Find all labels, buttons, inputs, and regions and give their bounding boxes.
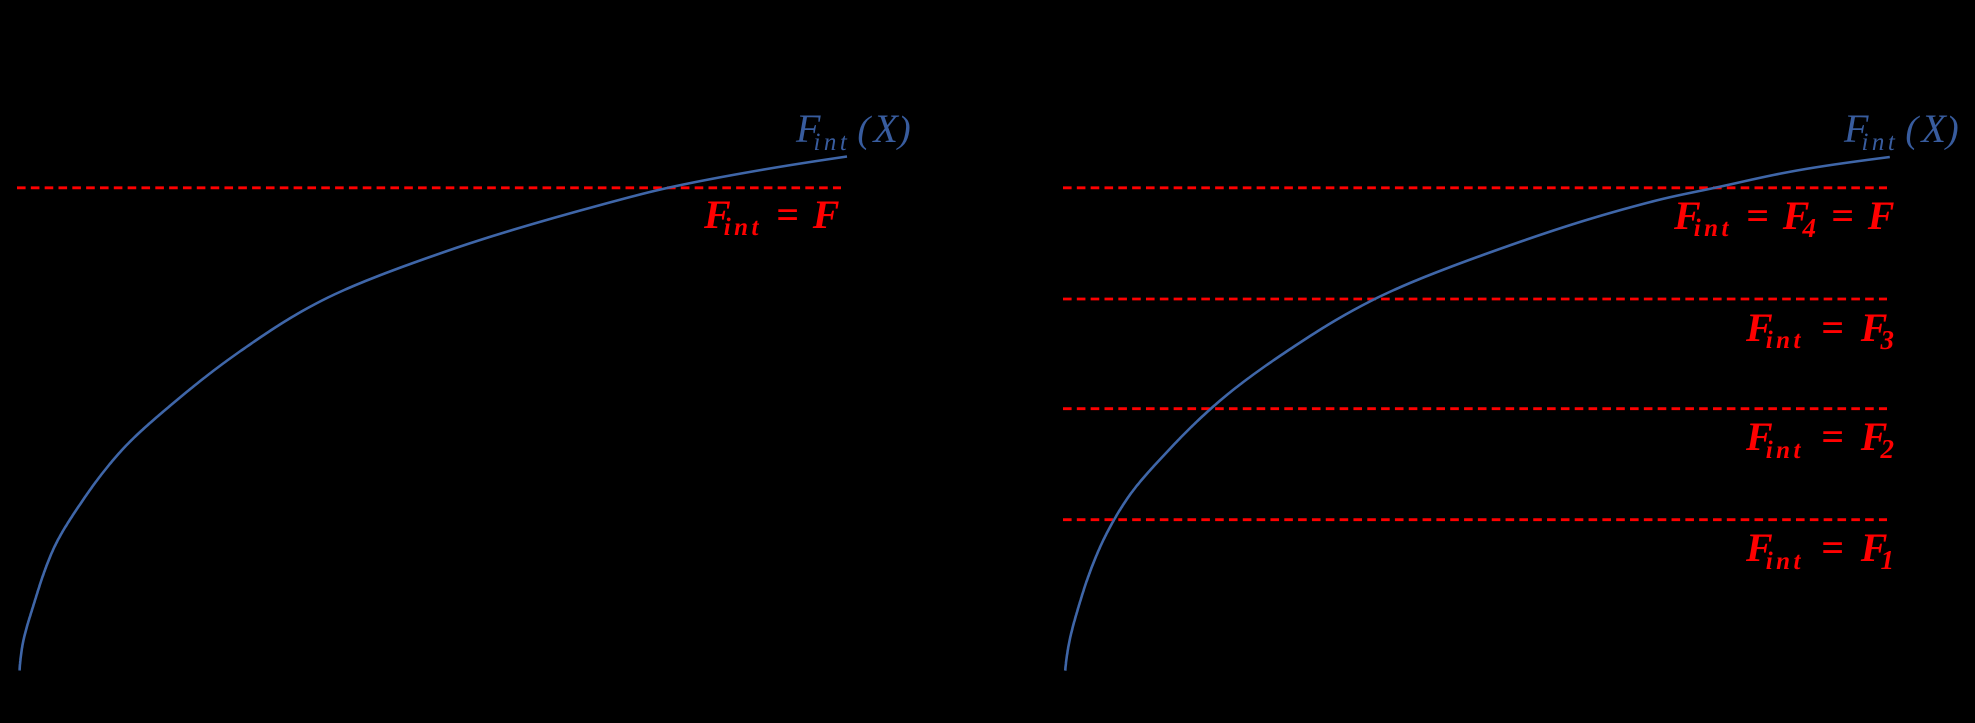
label right line F_int = F_2 — [1746, 417, 1895, 463]
label left curve F_int(X) — [796, 109, 914, 155]
label right line F_int = F_4 = F — [1674, 196, 1894, 242]
right curve F_int(X) — [1065, 157, 1890, 671]
label right line F_int = F_1 — [1746, 528, 1895, 574]
right dashed line F_int = F_4 = F — [1063, 186, 1887, 189]
left dashed line F_int = F — [17, 186, 841, 189]
right dashed line F_int = F_2 — [1063, 407, 1887, 410]
right dashed line F_int = F_1 — [1063, 518, 1887, 521]
left curve F_int(X) — [20, 157, 848, 671]
label right line F_int = F_3 — [1746, 308, 1895, 354]
right dashed line F_int = F_3 — [1063, 298, 1887, 301]
label right curve F_int(X) — [1844, 109, 1962, 155]
label left line F_int = F — [704, 195, 839, 241]
